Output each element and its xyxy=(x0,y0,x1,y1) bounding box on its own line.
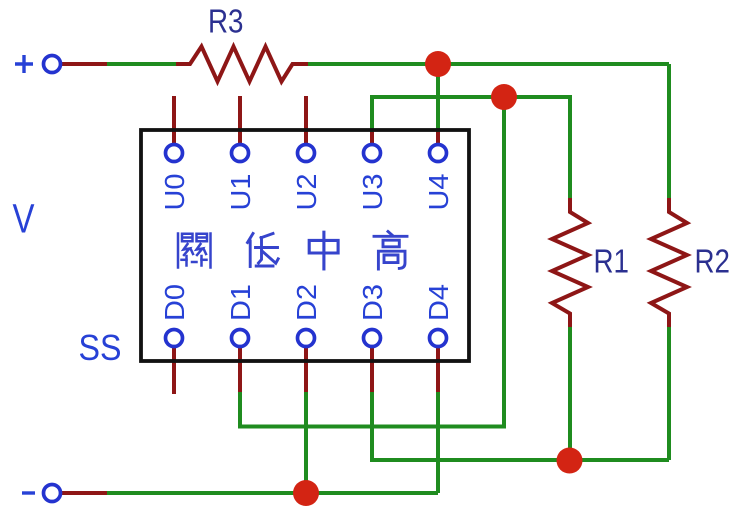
pin circle D3 xyxy=(364,330,381,347)
glyph 高 (high) drawn strokes xyxy=(374,232,407,270)
wire stub D4 xyxy=(436,343,440,392)
wire stub U1 xyxy=(238,96,242,149)
wire green + rail left of R3 xyxy=(107,62,176,66)
junction dot A (+ rail / U4 / R2) xyxy=(425,51,451,77)
svg-text:U3: U3 xyxy=(357,174,388,211)
junction dot B (U3 / R1 / D1) xyxy=(491,84,517,110)
junction dot D (D3 / R1 / R2 bottoms) xyxy=(557,448,583,474)
pin circle D1 xyxy=(232,330,249,347)
pin circle U3 xyxy=(364,145,381,162)
wire maroon from + terminal xyxy=(61,62,107,66)
pin circle U4 xyxy=(430,145,447,162)
wire stub U3 xyxy=(370,132,374,149)
pin circle D2 xyxy=(298,330,315,347)
wire green from junction B down and left to D1 xyxy=(240,97,504,427)
svg-text:U0: U0 xyxy=(159,174,190,211)
terminal circle - xyxy=(44,485,61,502)
resistor R2 xyxy=(651,198,687,327)
pin circle D0 xyxy=(166,330,183,347)
wire green U3 rail xyxy=(372,97,570,198)
wire green + rail right of R3 to corner xyxy=(308,62,669,66)
svg-text:D1: D1 xyxy=(225,284,256,321)
svg-text:U2: U2 xyxy=(291,174,322,211)
wire green D3 down and right to R1/R2 bottoms xyxy=(372,392,669,460)
wire stub U2 xyxy=(304,96,308,149)
pin circle D4 xyxy=(430,330,447,347)
svg-text:U1: U1 xyxy=(225,174,256,211)
wire stub D2 xyxy=(304,343,308,392)
resistor R1 xyxy=(552,198,588,327)
node - (minus terminal symbol) xyxy=(22,491,35,494)
wire green D2 down to minus rail xyxy=(304,392,308,493)
wire maroon from - terminal xyxy=(61,491,107,495)
wire green R1 bottom xyxy=(568,327,572,460)
svg-text:D4: D4 xyxy=(423,284,454,321)
glyph 中 (mid) drawn strokes xyxy=(309,232,338,269)
pin circle U2 xyxy=(298,145,315,162)
junction dot C (minus rail / D2) xyxy=(293,480,319,506)
glyph 關 (off) drawn strokes xyxy=(178,234,211,268)
wire stub D3 xyxy=(370,343,374,392)
resistor R3 xyxy=(176,47,308,82)
switch box S1 xyxy=(141,130,469,361)
svg-text:SS: SS xyxy=(79,327,122,368)
wire green from junction down to U4 xyxy=(436,64,440,133)
svg-text:D3: D3 xyxy=(357,284,388,321)
wire stub U4 xyxy=(436,132,440,149)
node + (plus terminal symbol) xyxy=(15,55,33,73)
wire green D4 down to minus rail xyxy=(436,392,440,493)
wire green R2 bottom xyxy=(667,327,671,460)
wire stub U0 xyxy=(172,96,176,149)
pin circle U1 xyxy=(232,145,249,162)
pin circle U0 xyxy=(166,145,183,162)
svg-text:R2: R2 xyxy=(695,243,731,280)
wire green down to R2 top xyxy=(667,64,671,198)
wire stub D1 xyxy=(238,343,242,392)
svg-text:R1: R1 xyxy=(594,243,630,280)
glyph 低 (low) drawn strokes xyxy=(248,234,279,267)
svg-text:R3: R3 xyxy=(208,3,244,40)
wire green minus rail xyxy=(107,491,438,495)
svg-text:V: V xyxy=(13,196,36,242)
svg-text:D0: D0 xyxy=(159,284,190,321)
wire stub D0 (unconnected) xyxy=(172,343,176,394)
svg-text:U4: U4 xyxy=(423,174,454,211)
terminal circle + xyxy=(44,56,61,73)
svg-text:D2: D2 xyxy=(291,284,322,321)
